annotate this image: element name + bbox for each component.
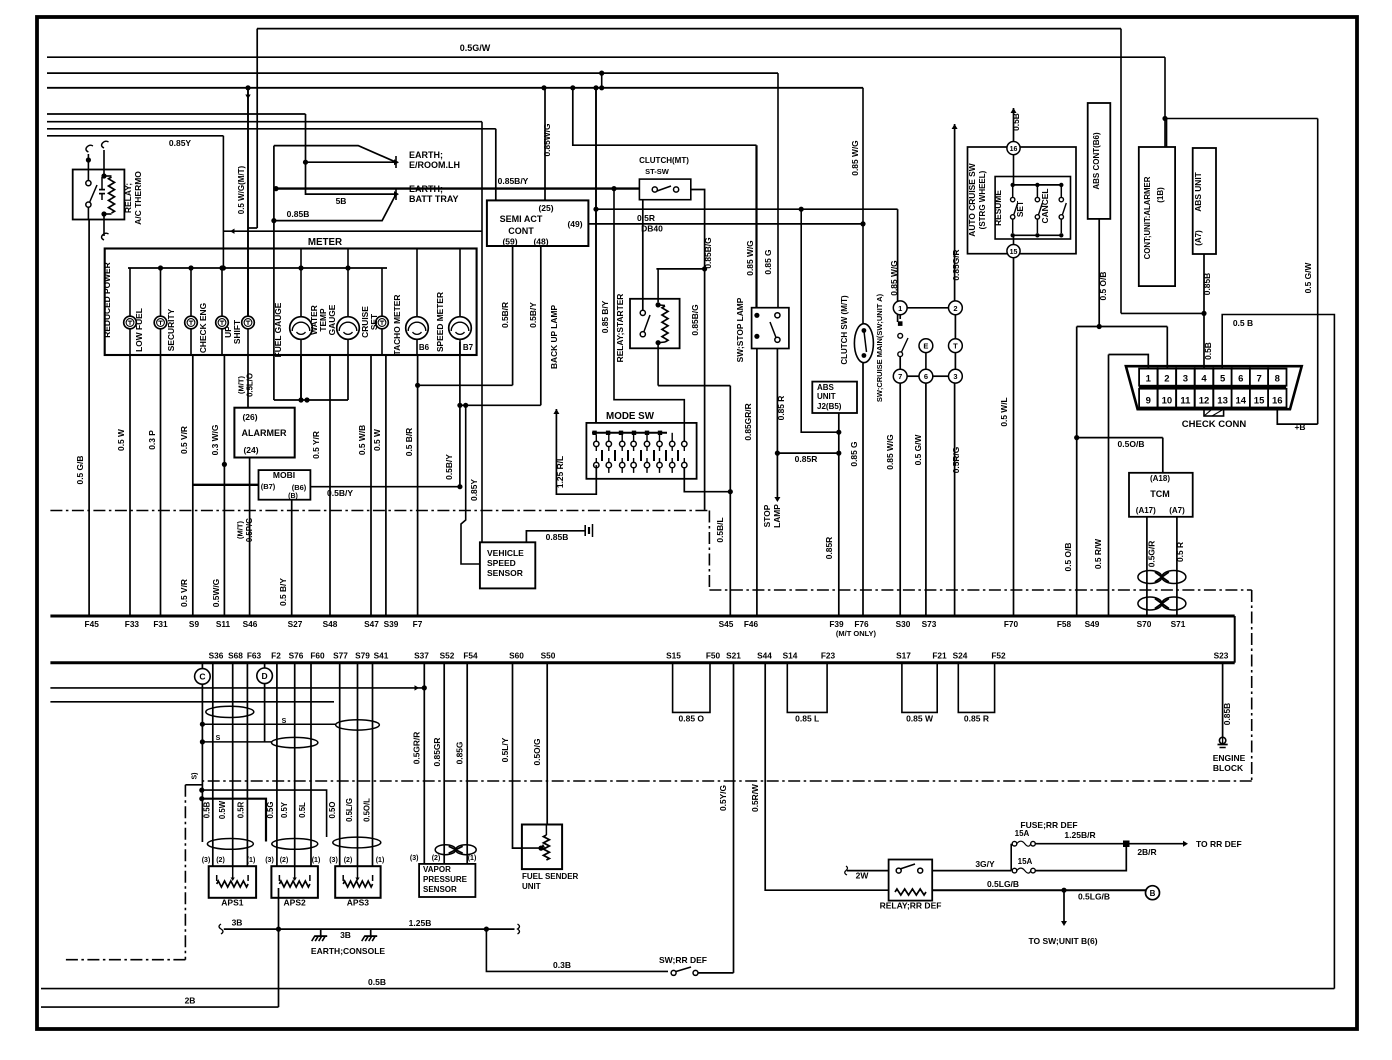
- svg-text:S73: S73: [922, 619, 937, 629]
- svg-text:(1): (1): [468, 855, 477, 862]
- svg-text:0.5B: 0.5B: [1011, 113, 1021, 131]
- svg-text:RELAY;: RELAY;: [123, 183, 133, 213]
- svg-text:6: 6: [1238, 374, 1243, 385]
- svg-text:0.5 O/B: 0.5 O/B: [1098, 272, 1108, 301]
- svg-text:4: 4: [1201, 374, 1207, 385]
- svg-text:14: 14: [1236, 396, 1247, 407]
- svg-text:0.5 G/B: 0.5 G/B: [75, 456, 85, 485]
- svg-text:8: 8: [1275, 374, 1280, 385]
- svg-text:(49): (49): [567, 219, 582, 229]
- svg-text:0.5B/L: 0.5B/L: [715, 517, 725, 542]
- svg-text:S45: S45: [719, 619, 734, 629]
- svg-text:AUTO CRUISE SW: AUTO CRUISE SW: [967, 163, 977, 236]
- svg-text:MOBI: MOBI: [273, 470, 295, 480]
- svg-text:F70: F70: [1004, 619, 1019, 629]
- svg-text:0.85 B/Y: 0.85 B/Y: [600, 300, 610, 333]
- svg-text:+B: +B: [1294, 422, 1305, 432]
- svg-text:0.5R: 0.5R: [637, 213, 655, 223]
- svg-text:B6: B6: [419, 343, 430, 352]
- svg-text:CLUTCH SW (M/T): CLUTCH SW (M/T): [840, 295, 849, 365]
- svg-text:(48): (48): [533, 237, 548, 247]
- svg-text:0.5 W: 0.5 W: [372, 429, 382, 451]
- svg-text:S36: S36: [209, 651, 224, 661]
- svg-text:S49: S49: [1085, 619, 1100, 629]
- svg-text:S77: S77: [333, 651, 348, 661]
- svg-text:S70: S70: [1137, 619, 1152, 629]
- svg-text:0.85 L: 0.85 L: [795, 714, 819, 724]
- svg-text:0.85 W: 0.85 W: [906, 714, 934, 724]
- svg-text:S37: S37: [414, 651, 429, 661]
- svg-text:SPEED: SPEED: [487, 558, 516, 568]
- svg-text:0.5 W: 0.5 W: [116, 429, 126, 451]
- svg-text:A/C THERMO: A/C THERMO: [133, 171, 143, 225]
- svg-text:0.85G: 0.85G: [455, 742, 465, 765]
- svg-text:APS3: APS3: [347, 898, 369, 908]
- svg-text:5B: 5B: [336, 196, 347, 206]
- svg-text:F45: F45: [85, 619, 100, 629]
- svg-text:15A: 15A: [1015, 829, 1030, 838]
- svg-text:F7: F7: [413, 619, 423, 629]
- svg-text:REDUCED POWER: REDUCED POWER: [102, 262, 112, 337]
- svg-text:0.85 G: 0.85 G: [849, 441, 859, 466]
- svg-text:0.85 W/G: 0.85 W/G: [889, 260, 899, 295]
- svg-text:0.5 B/R: 0.5 B/R: [404, 428, 414, 456]
- svg-text:9: 9: [1146, 396, 1151, 407]
- svg-text:S24: S24: [953, 651, 968, 661]
- svg-text:F2: F2: [271, 651, 281, 661]
- svg-text:ABS UNIT: ABS UNIT: [1193, 171, 1203, 211]
- svg-text:0.5 B: 0.5 B: [1233, 318, 1253, 328]
- svg-text:(A7): (A7): [1194, 230, 1203, 246]
- svg-text:SPEED METER: SPEED METER: [435, 292, 445, 352]
- svg-text:0.5 Y/R: 0.5 Y/R: [311, 431, 321, 459]
- svg-text:TACHO METER: TACHO METER: [392, 295, 402, 356]
- svg-text:0.85G/R: 0.85G/R: [951, 249, 961, 280]
- svg-text:SENSOR: SENSOR: [423, 885, 457, 894]
- svg-text:S48: S48: [323, 619, 338, 629]
- svg-text:0.5 W/B: 0.5 W/B: [357, 425, 367, 455]
- svg-text:B: B: [1150, 889, 1156, 898]
- svg-text:F52: F52: [991, 651, 1006, 661]
- svg-text:7: 7: [898, 372, 902, 381]
- svg-text:0.3B: 0.3B: [553, 960, 571, 970]
- svg-text:S11: S11: [216, 619, 231, 629]
- svg-text:S: S: [282, 718, 287, 725]
- svg-text:3B: 3B: [340, 930, 351, 940]
- svg-text:0.85 G: 0.85 G: [763, 249, 773, 274]
- svg-text:(2): (2): [280, 857, 289, 864]
- svg-text:S41: S41: [374, 651, 389, 661]
- svg-text:0.5L/O: 0.5L/O: [246, 373, 255, 397]
- svg-text:SW;RR DEF: SW;RR DEF: [659, 955, 707, 965]
- svg-text:0.5L/Y: 0.5L/Y: [500, 737, 510, 762]
- svg-text:0.85W/G: 0.85W/G: [542, 123, 552, 156]
- svg-text:(1B): (1B): [1156, 187, 1165, 203]
- svg-text:(M/T): (M/T): [237, 376, 246, 394]
- svg-text:BATT TRAY: BATT TRAY: [409, 194, 459, 204]
- svg-text:0.5 W/G(M/T): 0.5 W/G(M/T): [237, 165, 246, 214]
- svg-text:UNIT: UNIT: [817, 392, 836, 401]
- svg-text:12: 12: [1199, 396, 1210, 407]
- svg-text:0.5LG/B: 0.5LG/B: [987, 879, 1019, 889]
- svg-text:0.85B: 0.85B: [1202, 273, 1212, 295]
- svg-text:C: C: [199, 672, 205, 682]
- svg-text:S52: S52: [440, 651, 455, 661]
- svg-text:0.85 W/G: 0.85 W/G: [850, 140, 860, 175]
- svg-text:0.85R: 0.85R: [795, 454, 818, 464]
- svg-text:0.85R: 0.85R: [824, 537, 834, 559]
- svg-text:0.85 O: 0.85 O: [679, 714, 705, 724]
- svg-text:0.5 G/W: 0.5 G/W: [1303, 263, 1313, 294]
- svg-text:0.85 R: 0.85 R: [776, 396, 786, 421]
- svg-text:S46: S46: [243, 619, 258, 629]
- svg-text:S79: S79: [355, 651, 370, 661]
- svg-text:0.5W/G: 0.5W/G: [211, 579, 221, 607]
- svg-text:(A7): (A7): [1169, 506, 1185, 515]
- svg-text:ST-SW: ST-SW: [645, 167, 670, 176]
- svg-text:ABS: ABS: [817, 383, 835, 392]
- svg-text:SHIFT: SHIFT: [232, 319, 242, 344]
- svg-text:2W: 2W: [856, 871, 870, 881]
- svg-text:SET: SET: [369, 313, 379, 330]
- svg-text:F46: F46: [744, 619, 759, 629]
- svg-text:MODE SW: MODE SW: [606, 411, 655, 422]
- svg-text:0.5Y: 0.5Y: [280, 801, 289, 818]
- svg-text:(25): (25): [538, 203, 553, 213]
- svg-text:LOW FUEL: LOW FUEL: [134, 308, 144, 352]
- svg-text:SENSOR: SENSOR: [487, 568, 523, 578]
- svg-text:0.85B: 0.85B: [1222, 703, 1232, 725]
- svg-text:0.5B/Y: 0.5B/Y: [528, 302, 538, 328]
- svg-text:(A17): (A17): [1136, 506, 1156, 515]
- svg-text:(B7): (B7): [261, 482, 276, 491]
- svg-text:0.85 W/G: 0.85 W/G: [745, 240, 755, 275]
- svg-text:(24): (24): [243, 445, 258, 455]
- svg-text:3B: 3B: [232, 918, 243, 928]
- svg-text:0.5R/G: 0.5R/G: [951, 447, 961, 474]
- svg-text:D: D: [262, 671, 268, 681]
- svg-text:(3): (3): [329, 857, 338, 864]
- svg-text:0.85B/G: 0.85B/G: [690, 304, 700, 335]
- svg-text:S27: S27: [288, 619, 303, 629]
- svg-text:(1): (1): [376, 857, 385, 864]
- svg-text:S14: S14: [783, 651, 798, 661]
- svg-text:S15: S15: [666, 651, 681, 661]
- svg-text:FUEL GAUGE: FUEL GAUGE: [273, 302, 283, 357]
- svg-text:0.85 W/G: 0.85 W/G: [885, 434, 895, 469]
- svg-text:0.85GR: 0.85GR: [432, 738, 442, 767]
- svg-text:(26): (26): [242, 412, 257, 422]
- svg-text:(M/T): (M/T): [236, 521, 245, 539]
- svg-text:CONT;UNIT:ALARMER: CONT;UNIT:ALARMER: [1143, 176, 1152, 259]
- svg-text:0.5G: 0.5G: [266, 802, 275, 819]
- svg-text:BLOCK: BLOCK: [1213, 763, 1244, 773]
- svg-text:(1): (1): [247, 857, 256, 864]
- svg-text:0.5R/W: 0.5R/W: [750, 784, 760, 812]
- svg-text:0.85 R: 0.85 R: [964, 714, 989, 724]
- svg-text:13: 13: [1217, 396, 1228, 407]
- svg-text:F21: F21: [932, 651, 947, 661]
- svg-text:VAPOR: VAPOR: [423, 865, 451, 874]
- svg-text:SW;CRUISE MAIN(SW;UNIT A): SW;CRUISE MAIN(SW;UNIT A): [875, 293, 884, 402]
- svg-text:3: 3: [953, 372, 957, 381]
- svg-text:S76: S76: [289, 651, 304, 661]
- svg-text:F33: F33: [125, 619, 140, 629]
- svg-text:F54: F54: [463, 651, 478, 661]
- svg-text:S71: S71: [1171, 619, 1186, 629]
- svg-text:CONT: CONT: [508, 226, 534, 236]
- svg-text:10: 10: [1162, 396, 1173, 407]
- svg-text:FUSE;RR DEF: FUSE;RR DEF: [1020, 820, 1077, 830]
- svg-text:S30: S30: [896, 619, 911, 629]
- svg-text:0.85B/Y: 0.85B/Y: [498, 176, 529, 186]
- svg-text:(2): (2): [344, 857, 353, 864]
- svg-text:0.85Y: 0.85Y: [469, 479, 479, 501]
- svg-text:2: 2: [953, 304, 957, 313]
- svg-text:LAMP: LAMP: [772, 504, 782, 528]
- svg-text:0.5GR/R: 0.5GR/R: [412, 732, 422, 765]
- svg-text:RESUME: RESUME: [993, 190, 1003, 226]
- svg-text:TO RR DEF: TO RR DEF: [1196, 839, 1242, 849]
- svg-text:2: 2: [1164, 374, 1169, 385]
- svg-text:(B6): (B6): [292, 483, 307, 492]
- svg-text:0.5L: 0.5L: [298, 802, 307, 818]
- svg-text:SW;STOP LAMP: SW;STOP LAMP: [735, 297, 745, 362]
- svg-text:0.5Y/G: 0.5Y/G: [718, 785, 728, 811]
- svg-text:0.5B/Y: 0.5B/Y: [444, 454, 454, 480]
- svg-text:0.5 R: 0.5 R: [1175, 542, 1185, 562]
- svg-text:3G/Y: 3G/Y: [975, 859, 995, 869]
- svg-text:0.5B: 0.5B: [368, 977, 386, 987]
- svg-text:15A: 15A: [1018, 857, 1033, 866]
- svg-text:0.85B: 0.85B: [287, 209, 310, 219]
- svg-text:3: 3: [1183, 374, 1188, 385]
- svg-text:FUEL SENDER: FUEL SENDER: [522, 872, 579, 881]
- svg-text:F76: F76: [854, 619, 869, 629]
- svg-text:ABS CONT(B6): ABS CONT(B6): [1092, 132, 1101, 190]
- svg-text:0.5 V/R: 0.5 V/R: [179, 579, 189, 607]
- svg-text:CHECK CONN: CHECK CONN: [1182, 419, 1247, 430]
- svg-text:0.85Y: 0.85Y: [169, 138, 192, 148]
- svg-text:0.5B: 0.5B: [203, 801, 212, 818]
- svg-text:0.5B/Y: 0.5B/Y: [327, 488, 353, 498]
- svg-text:ENGINE: ENGINE: [1213, 753, 1246, 763]
- svg-text:J2(B5): J2(B5): [817, 402, 842, 411]
- svg-text:(M/T ONLY): (M/T ONLY): [836, 629, 877, 638]
- svg-text:(STRG WHEEL): (STRG WHEEL): [978, 170, 987, 229]
- svg-text:1.25B: 1.25B: [409, 918, 432, 928]
- svg-text:0.5O/L: 0.5O/L: [363, 798, 372, 822]
- svg-text:S50: S50: [541, 651, 556, 661]
- svg-text:16: 16: [1272, 396, 1283, 407]
- svg-text:0.5G/R: 0.5G/R: [1147, 541, 1157, 568]
- svg-text:RELAY;STARTER: RELAY;STARTER: [615, 294, 625, 363]
- svg-text:0.5O: 0.5O: [328, 802, 337, 819]
- svg-text:METER: METER: [308, 237, 342, 248]
- svg-text:(3): (3): [202, 857, 211, 864]
- svg-text:APS1: APS1: [221, 898, 243, 908]
- svg-text:E: E: [923, 342, 928, 351]
- svg-text:6: 6: [924, 372, 928, 381]
- svg-text:(2): (2): [432, 855, 441, 862]
- svg-text:APS2: APS2: [284, 898, 306, 908]
- svg-text:S47: S47: [364, 619, 379, 629]
- svg-text:EARTH;CONSOLE: EARTH;CONSOLE: [311, 946, 385, 956]
- svg-text:EARTH;: EARTH;: [409, 150, 443, 160]
- svg-text:0.5O/G: 0.5O/G: [532, 739, 542, 766]
- svg-text:15: 15: [1254, 396, 1265, 407]
- svg-text:0.85B: 0.85B: [546, 532, 569, 542]
- svg-text:DB40: DB40: [641, 224, 663, 234]
- svg-text:S68: S68: [228, 651, 243, 661]
- svg-text:CLUTCH(MT): CLUTCH(MT): [639, 156, 689, 165]
- svg-text:0.5 R/W: 0.5 R/W: [1093, 539, 1103, 569]
- svg-text:PRESSURE: PRESSURE: [423, 875, 468, 884]
- svg-text:F50: F50: [706, 651, 721, 661]
- svg-text:0.5 G/W: 0.5 G/W: [913, 435, 923, 466]
- svg-text:SECURITY: SECURITY: [166, 308, 176, 351]
- svg-text:0.5 V/R: 0.5 V/R: [179, 426, 189, 454]
- svg-text:(3): (3): [410, 855, 419, 862]
- svg-text:(3): (3): [265, 857, 274, 864]
- svg-text:1: 1: [898, 304, 902, 313]
- svg-text:15: 15: [1010, 249, 1018, 256]
- svg-text:2B/R: 2B/R: [1137, 847, 1156, 857]
- svg-text:CHECK ENG: CHECK ENG: [198, 303, 208, 353]
- svg-text:(59): (59): [502, 237, 517, 247]
- svg-text:0.5G/W: 0.5G/W: [460, 43, 491, 53]
- svg-text:0.5 O/B: 0.5 O/B: [1063, 543, 1073, 572]
- svg-text:1: 1: [1146, 374, 1152, 385]
- svg-text:F23: F23: [821, 651, 836, 661]
- svg-text:0.3 P: 0.3 P: [147, 430, 157, 450]
- svg-text:2B: 2B: [185, 996, 196, 1006]
- svg-text:F60: F60: [310, 651, 325, 661]
- svg-text:S39: S39: [384, 619, 399, 629]
- svg-text:1.25 R/L: 1.25 R/L: [555, 456, 565, 488]
- svg-text:7: 7: [1256, 374, 1261, 385]
- svg-text:T: T: [953, 342, 958, 351]
- svg-text:ALARMER: ALARMER: [242, 428, 287, 438]
- svg-text:S: S: [216, 735, 221, 742]
- svg-text:0.5 W/L: 0.5 W/L: [999, 397, 1009, 426]
- svg-text:E/ROOM.LH: E/ROOM.LH: [409, 160, 460, 170]
- svg-text:0.5W: 0.5W: [218, 800, 227, 819]
- svg-text:S21: S21: [726, 651, 741, 661]
- svg-text:SEMI ACT: SEMI ACT: [500, 214, 543, 224]
- svg-text:STOP: STOP: [762, 504, 772, 527]
- svg-text:S60: S60: [509, 651, 524, 661]
- svg-text:(B): (B): [288, 493, 298, 500]
- svg-text:F31: F31: [153, 619, 168, 629]
- svg-text:S23: S23: [1214, 651, 1229, 661]
- svg-text:RELAY;RR DEF: RELAY;RR DEF: [880, 901, 942, 911]
- svg-text:(1): (1): [312, 857, 321, 864]
- svg-text:0.5P/G: 0.5P/G: [245, 518, 254, 542]
- svg-text:5: 5: [1220, 374, 1226, 385]
- svg-text:F63: F63: [247, 651, 262, 661]
- svg-text:S): S): [191, 773, 198, 780]
- svg-text:B7: B7: [463, 343, 474, 352]
- svg-text:(A18): (A18): [1150, 474, 1170, 483]
- svg-text:F39: F39: [829, 619, 844, 629]
- svg-text:S9: S9: [189, 619, 200, 629]
- svg-text:0.5 B/Y: 0.5 B/Y: [278, 578, 288, 606]
- svg-text:TO SW;UNIT B(6): TO SW;UNIT B(6): [1028, 936, 1097, 946]
- svg-text:0.5B/R: 0.5B/R: [500, 302, 510, 328]
- svg-text:F58: F58: [1057, 619, 1072, 629]
- svg-text:UNIT: UNIT: [522, 882, 541, 891]
- svg-text:0.5LG/B: 0.5LG/B: [1078, 892, 1110, 902]
- svg-text:GAUGE: GAUGE: [327, 304, 337, 335]
- svg-text:11: 11: [1180, 396, 1191, 407]
- svg-text:16: 16: [1010, 146, 1018, 153]
- svg-text:VEHICLE: VEHICLE: [487, 548, 524, 558]
- svg-text:0.3 W/G: 0.3 W/G: [210, 425, 220, 456]
- svg-text:0.5L/G: 0.5L/G: [345, 798, 354, 822]
- svg-text:0.85GR/R: 0.85GR/R: [743, 403, 753, 440]
- svg-text:0.5B: 0.5B: [1203, 342, 1213, 360]
- svg-text:0.5O/B: 0.5O/B: [1118, 439, 1145, 449]
- svg-text:S17: S17: [896, 651, 911, 661]
- svg-text:S44: S44: [757, 651, 772, 661]
- svg-text:TCM: TCM: [1150, 489, 1170, 499]
- svg-text:1.25B/R: 1.25B/R: [1064, 830, 1095, 840]
- svg-text:BACK UP LAMP: BACK UP LAMP: [549, 305, 559, 369]
- svg-text:(2): (2): [216, 857, 225, 864]
- svg-text:0.5R: 0.5R: [237, 801, 246, 818]
